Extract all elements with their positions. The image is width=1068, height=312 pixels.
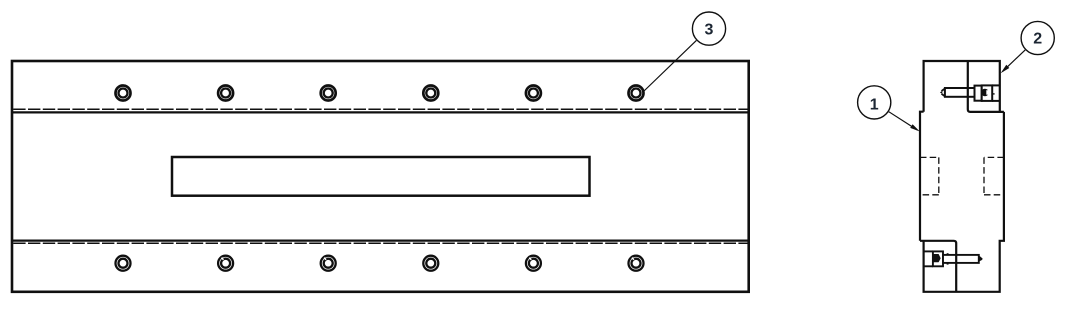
- hole T4: [423, 86, 438, 101]
- top flange edge line: [12, 111, 749, 113]
- hole B5: [526, 256, 541, 271]
- bottom flange edge line: [12, 240, 749, 242]
- hidden slot left (dashed): [920, 157, 939, 194]
- hole T1: [116, 86, 131, 101]
- balloon 3 leader: [644, 40, 696, 91]
- hole T5: [526, 86, 541, 101]
- svg-text:1: 1: [870, 96, 879, 113]
- side view: top screw M1: [940, 85, 1000, 101]
- balloon 2 leader: [1001, 50, 1026, 73]
- side view bottom screw boss: [920, 241, 956, 292]
- side view pocket lines (top): [968, 61, 1004, 112]
- hole B2: [218, 256, 233, 271]
- balloon 2: [1021, 21, 1054, 54]
- balloon 1: [858, 86, 891, 119]
- center slot: [172, 157, 590, 196]
- top hidden dashed line: [13, 108, 747, 110]
- svg-text:2: 2: [1033, 31, 1042, 48]
- side view outer outline: [920, 61, 1004, 292]
- hole B1: [116, 256, 131, 271]
- hole T6: [629, 86, 644, 101]
- balloon 1 leader: [889, 112, 920, 132]
- hole T2: [218, 86, 233, 101]
- balloon 3: [692, 12, 725, 45]
- hidden slot right (dashed): [984, 157, 1004, 194]
- svg-text:3: 3: [705, 21, 714, 38]
- front view plate outline: [12, 61, 749, 292]
- hole B3: [321, 256, 336, 271]
- hole B6: [629, 256, 644, 271]
- hole T3: [321, 86, 336, 101]
- bottom hidden dashed line: [13, 242, 747, 244]
- hole B4: [423, 256, 438, 271]
- side view: bottom screw M2: [924, 251, 983, 266]
